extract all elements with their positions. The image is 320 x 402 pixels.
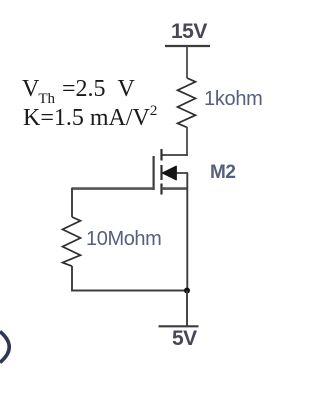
resistor R2 10Mohm [63,217,81,266]
wire left vertical to R2 [71,188,73,217]
wire gate to R2 top [72,187,154,190]
mosfet M2 source stub [162,187,189,190]
list marker paren [0,332,9,363]
wire R2 bottom to rail [71,266,73,291]
mosfet M2 channel segments [160,149,162,195]
mosfet M2 bulk stub with arrow [162,166,188,180]
wire bottom rail [71,290,188,292]
resistor R1 1kohm [178,78,196,127]
label 15V [171,20,207,44]
wire from 15V bar to R1 top [186,46,188,78]
label 10Mohm [86,228,161,251]
mosfet M2 gate bar [153,156,155,190]
label M2 [210,162,235,184]
supply 15V bar [165,45,210,47]
label VTh equation [22,76,135,107]
junction node dot [184,288,190,294]
mosfet M2 drain stub [162,154,189,156]
wire right vertical source to bottom rail [186,173,188,291]
label K equation [23,104,157,132]
wire from R1 bottom to drain [186,127,188,155]
label 5V [172,327,197,351]
label 1kohm [204,88,263,111]
wire junction to 5V bar [186,291,188,327]
supply 5V bar [159,325,199,327]
